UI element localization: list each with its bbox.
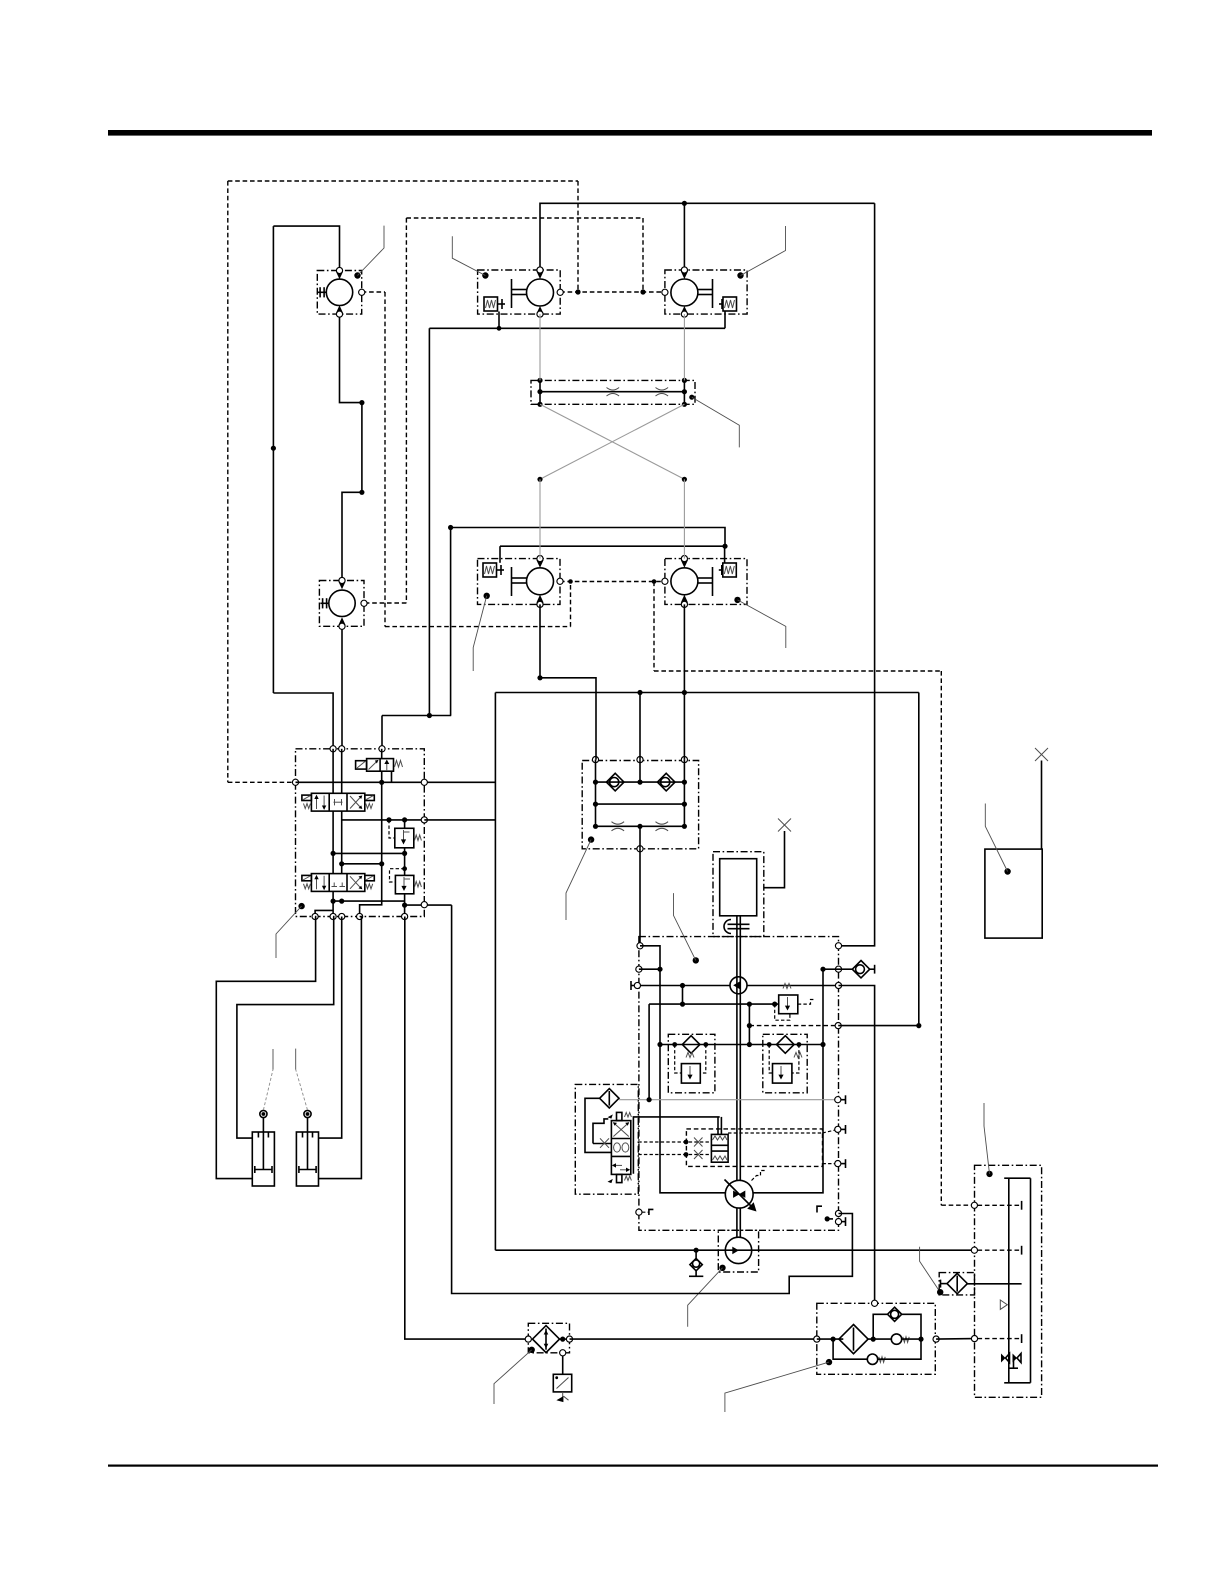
node: corner dot x450 y527 — [448, 525, 453, 530]
node: x660 junction — [657, 967, 662, 972]
callout: motor M_RR2 — [734, 597, 740, 603]
port: enclosure right check — [835, 966, 841, 972]
wire: y985 out to x874 drop to filter assy — [839, 986, 875, 1304]
node: end junction x918 — [916, 1023, 921, 1028]
divider enclosure — [582, 761, 698, 849]
callout: cylinder 2 leader — [296, 1070, 308, 1111]
tank strainer box — [939, 1273, 974, 1295]
variable displacement pump P1 — [725, 1171, 766, 1212]
port: filter right — [566, 1336, 572, 1342]
wire: filter to servo valve hook — [585, 1098, 611, 1152]
wire: dashed drop x941 to tank — [940, 671, 942, 1205]
wire: divider mid column top — [639, 760, 641, 783]
wire: filter internal rail — [560, 1338, 570, 1340]
wire: suction trunk to return filter assy — [570, 1338, 817, 1340]
node: suction tap x649 — [647, 1097, 652, 1102]
port: block top P2 — [339, 746, 345, 752]
wire: M1 feed from left — [273, 226, 339, 270]
wire: y1025 out to x918 — [838, 1025, 919, 1027]
servo control valve SV — [608, 1112, 632, 1183]
port: enclosure right upper (reel return) — [835, 943, 841, 949]
bottom right ports of enclosure — [817, 1206, 822, 1212]
wire: block R2 to x495 — [424, 819, 495, 821]
wire: x273 to valve block port — [273, 693, 333, 749]
port: tank left y1250 — [971, 1247, 977, 1253]
check valve CV-B — [657, 773, 675, 791]
wire: steer return to x451 — [405, 904, 452, 906]
callout: motor M_RR — [737, 272, 743, 278]
node: left tap — [831, 1337, 836, 1342]
charge supply line y1250 — [495, 1249, 974, 1251]
node: RV2 bottom junction — [402, 903, 407, 908]
node: dot on x273 — [271, 446, 276, 451]
wire: relief gallery y819 — [342, 819, 425, 821]
callout: main pump leader — [693, 957, 699, 963]
wire: servo rail y1004 — [649, 1003, 779, 1005]
port: tank left y1338 — [971, 1336, 977, 1342]
node: suction check tap — [694, 1248, 699, 1253]
wire: gray riser M_RR bottom to divider — [683, 314, 685, 380]
wire: dashed into tank y1338 — [978, 1338, 1022, 1340]
wire: front deck enclosure dashed left side — [405, 218, 407, 603]
node: right tap — [871, 1337, 876, 1342]
wire: brake stub row1 right — [724, 312, 726, 329]
node: taps on y1004 — [680, 1002, 685, 1007]
wire: dashed into tank y1205 — [978, 1204, 1022, 1206]
node: divider mid tap — [637, 690, 642, 695]
wire: motor RF2 return to divider — [540, 604, 596, 759]
wire: case drain return path — [452, 905, 853, 1293]
wire: drop to right reel motor top port — [683, 203, 685, 270]
node: merge — [918, 1337, 923, 1342]
port: block right R3 — [421, 902, 427, 908]
charge pump CP1 — [730, 977, 747, 994]
callout: tank — [986, 1171, 992, 1177]
wire: riser x495 — [494, 693, 496, 1251]
node: x341 y901 — [339, 899, 344, 904]
servo pilot hook with plug X — [593, 1143, 611, 1145]
wire: dashed case line y1025 — [749, 1025, 838, 1027]
oil level mark — [1000, 1300, 1007, 1309]
wire: dashed drop x385 — [384, 292, 386, 627]
wire: row2 brake stub left — [499, 546, 501, 563]
backlap solenoid valve — [356, 759, 403, 772]
gauge port bottom left — [636, 1209, 642, 1215]
wire: hydrostat loop right — [753, 1045, 823, 1193]
wire: link y853 — [333, 852, 405, 854]
wire: spool feed x341 — [341, 749, 343, 794]
servo assembly enclosure — [575, 1084, 638, 1194]
reservoir vent line with plug X — [1041, 761, 1043, 850]
port: enclosure right y985 — [835, 982, 841, 988]
wire: x381 to V2 bottom port — [360, 864, 382, 917]
wire: suction rail y1099 (gray) — [619, 1099, 838, 1101]
wire: gray drop to row2 middle motor — [539, 479, 541, 558]
bypass check lower — [833, 1339, 921, 1364]
wire: M2 bottom to valve block port — [341, 626, 343, 749]
wire: divider mid column to y692 — [639, 693, 641, 760]
wire: link down to stroking piston — [717, 1117, 719, 1135]
port: enclosure left lower — [636, 966, 642, 972]
port: tank left y1205 — [971, 1202, 977, 1208]
node: T junction reel supply at x684 — [682, 201, 687, 206]
callout: cylinder 1 leader — [263, 1070, 273, 1111]
wire: spool feed x333 — [332, 749, 334, 794]
port: block left — [292, 779, 298, 785]
wire: inlet jog — [640, 946, 660, 1045]
callout: tank strainer leader — [920, 1247, 941, 1292]
node: junction y546 — [722, 544, 727, 549]
wire: divider bottom to pump enclosure — [639, 849, 641, 946]
wire: piston dashed links right to ports — [728, 1132, 822, 1134]
node: junction on crossover at x578 — [575, 289, 580, 294]
wire: dashed run y626 — [385, 626, 571, 628]
wire: row2 brake stub right — [724, 546, 726, 563]
callout: suction filter — [529, 1347, 535, 1353]
callout: return filter assy — [826, 1359, 832, 1365]
wheel motor M2 (rear left) — [319, 577, 367, 629]
gerotor charge pump CP2 — [725, 1237, 751, 1263]
check valve CV-R (outside right) — [839, 961, 875, 978]
wire: x749 drop — [748, 1004, 750, 1044]
wire: motor RR2 return to divider — [683, 604, 685, 759]
wire: row2 brake header y527 — [451, 528, 725, 547]
wire: left deck enclosure dashed top — [228, 180, 578, 182]
cylinder CYL2 (right) — [296, 1110, 318, 1186]
wire: port stub x315 — [315, 910, 333, 916]
port: enclosure right y1129 — [835, 1126, 841, 1132]
node: loop rail taps — [657, 1042, 662, 1047]
wire: reel supply line M_RF top — [540, 203, 875, 270]
wire: right check port rail — [823, 968, 839, 970]
port: block bottom ports — [312, 913, 318, 919]
pump enclosure — [639, 937, 839, 1231]
node: junction at x643 on crossover — [640, 289, 645, 294]
steer spool valve V2 (4/3) — [302, 874, 374, 892]
engine block — [720, 859, 757, 916]
reel motor M_RF2 (row2 middle) with brake left — [478, 556, 564, 608]
strainer filter F4 — [941, 1273, 968, 1293]
port: assy left — [814, 1336, 820, 1342]
wire: hydrostat loop left — [660, 1045, 725, 1193]
callout: charge pump — [719, 1265, 725, 1271]
wire: gray drop to row2 right motor — [683, 479, 685, 558]
node: bypass tap — [560, 1337, 565, 1342]
node: brake stub junction — [497, 326, 502, 331]
wire: charge pressure rail y985 — [637, 985, 730, 987]
port: block top P3 — [379, 746, 385, 752]
callout: reel flow divider — [692, 397, 740, 447]
orifice pair right — [656, 822, 669, 825]
wire: tank link y901 — [333, 900, 405, 902]
wire: RV2 column — [404, 853, 406, 875]
plug X lower — [694, 1150, 703, 1159]
wire: divider left column — [595, 760, 597, 827]
expansion reservoir — [985, 849, 1042, 938]
relief valve RV2 — [390, 866, 422, 894]
wire: divider crossover diagonal B — [540, 404, 684, 479]
node: x333 y853 — [331, 851, 336, 856]
port: assy top (from x874) — [872, 1300, 878, 1306]
shaft coupling — [724, 920, 750, 934]
multi-function valve MFV2 — [763, 1034, 807, 1093]
suction filter F1 — [600, 1089, 619, 1108]
wire: pilot dashed to piston upper — [638, 1141, 711, 1143]
wire: servo supply heavy — [633, 1117, 719, 1174]
stroking piston dashed box — [686, 1129, 822, 1167]
wire: filter out — [868, 1338, 890, 1340]
stroking piston — [711, 1134, 728, 1162]
port: block top P1 — [330, 746, 336, 752]
return filter F3 — [839, 1325, 868, 1354]
filter F2 — [533, 1326, 560, 1353]
wire: dashed stub from motor M1 right port — [362, 291, 385, 293]
reel motor M_RR2 (row2 right) with brake right — [662, 556, 747, 608]
wire: gray riser M_RF bottom to divider — [539, 314, 541, 380]
node: x823 tap — [820, 967, 825, 972]
anti-cavitation check valve below — [689, 1250, 703, 1276]
wire: brake pilot header y328 — [429, 327, 725, 329]
wire: M1 bottom jog to M2 top — [340, 314, 362, 580]
reel motor M_RR (row1 right) with brake — [662, 267, 747, 317]
node: jog dot upper — [359, 400, 364, 405]
wire: left deck enclosure dashed bottom to valve block port — [228, 781, 293, 783]
wire: brake pilot run y715 — [382, 715, 451, 717]
multi-function valve MFV1 — [668, 1034, 715, 1093]
wire: divider mid rail y804 — [596, 803, 685, 805]
node: x333 y901 — [331, 899, 336, 904]
wire: dashed into tank y1250 — [978, 1249, 1022, 1251]
wire: brake stub row1 left — [498, 312, 500, 329]
wire: divider crossover diagonal A — [540, 404, 684, 479]
wire: front deck enclosure dashed right drop — [642, 218, 644, 292]
page top rule — [108, 130, 1152, 136]
wire: assy main rail — [817, 1338, 844, 1340]
wire: divider orifice rail y826 — [596, 825, 685, 827]
wire: main gallery y782 — [296, 781, 496, 783]
reel motor M_RF (row1 middle) with brake — [478, 267, 564, 317]
engine enclosure — [713, 852, 764, 937]
plug X upper — [694, 1138, 703, 1147]
callout: center flow divider — [588, 836, 594, 842]
port: enclosure left gauge y985 — [634, 982, 640, 988]
wire: y1004 drop to suction rail — [648, 1004, 650, 1100]
wire: divider check rail y782 — [596, 781, 685, 783]
check valve CV-A — [606, 773, 624, 791]
port: enclosure right y1099 — [835, 1097, 841, 1103]
node: RV2 top tap — [402, 851, 407, 856]
wire: brake pilot drop x429 — [428, 328, 430, 715]
node: crossover end right — [682, 477, 687, 482]
wire: dashed link to left rear wheel motor port — [364, 602, 406, 604]
wire: servo branch — [682, 986, 684, 1005]
wire: pilot dashed to piston lower — [638, 1154, 711, 1156]
reel flow divider (row1) — [531, 378, 695, 407]
wire: center supply y692 — [495, 692, 918, 694]
port: enclosure right y1025 — [835, 1023, 841, 1029]
wire: link y863 — [342, 863, 382, 865]
port: block right R2 — [421, 817, 427, 823]
wheel motor M1 (front left) — [317, 267, 365, 317]
wire: RV1 bottom — [404, 848, 406, 854]
node: cross junction y692 — [682, 690, 687, 695]
node: divider junctions — [593, 780, 598, 785]
node: x381 y863 — [379, 861, 384, 866]
node: junction x654 row2 crossover — [652, 579, 657, 584]
wire: left deck enclosure dashed right drop — [577, 181, 579, 292]
wire: feed through backlap valve — [381, 749, 383, 759]
orifice pair left — [612, 822, 625, 825]
wire: x918 drop — [918, 693, 920, 1026]
port: enclosure right y1163 — [835, 1161, 841, 1167]
wire: row2 reel motor crossover dashed — [560, 581, 665, 583]
wire: steer line port x359 to right cylinder bottom — [319, 917, 362, 1179]
port: divider bottom — [637, 846, 643, 852]
wire: lift line port x315 to left cylinder bottom — [216, 917, 315, 1179]
wire: divider mid column bottom — [639, 826, 641, 849]
lift spool valve V1 (4/3) — [302, 793, 374, 811]
page bottom rule — [108, 1465, 1158, 1467]
wire: strainer into tank — [967, 1283, 1021, 1285]
charge pump enclosure — [718, 1230, 758, 1272]
node: jog dot lower — [359, 490, 364, 495]
bypass check upper — [873, 1307, 921, 1339]
wire: x823 drop to loop — [822, 969, 824, 1044]
wire: x404 to filter — [405, 917, 528, 1340]
wire: dashed run y671 to x941 — [654, 670, 941, 672]
wire: dashed drop x654 to y671 — [653, 582, 655, 672]
wire: lift line port x333 to left cylinder top — [237, 917, 334, 1139]
node: crossover end left — [537, 477, 542, 482]
port: divider top left — [592, 757, 598, 763]
engine vent stub with plug X — [764, 831, 785, 888]
relief valve RV1 — [389, 820, 421, 848]
wire: x381 drop from gallery — [381, 782, 383, 864]
port: filter bottom — [560, 1350, 566, 1356]
node: x341 y863 — [339, 861, 344, 866]
node: T of brake drop on y715 — [427, 713, 432, 718]
node: RV1 tap y819 — [402, 817, 407, 822]
port: assy right — [933, 1336, 939, 1342]
check valve mid — [891, 1334, 921, 1344]
wire: assy out to tank — [936, 1338, 974, 1341]
port: divider top right — [681, 757, 687, 763]
wire: reel return long vertical x874 — [839, 203, 875, 946]
vacuum switch — [553, 1356, 571, 1402]
drive shaft double line — [736, 916, 738, 1181]
port: enclosure left upper (from divider) — [637, 943, 643, 949]
wire: dashed into tank port y1205 — [941, 1204, 974, 1206]
node: x749 dashed tap — [747, 1023, 752, 1028]
wire: row2 brake feed riser x450 — [450, 528, 452, 716]
wire: left deck enclosure dashed left side — [227, 181, 229, 782]
port: filter left — [525, 1336, 531, 1342]
wire: row1 reel motor crossover dashed — [560, 291, 665, 293]
tank internal standpipe — [1004, 1178, 1030, 1383]
drain valves — [1001, 1354, 1021, 1369]
port: divider top mid — [637, 757, 643, 763]
wire: loop rail y1044 — [660, 1044, 823, 1046]
charge relief valve CRV — [775, 984, 815, 1021]
cylinder CYL1 (left) — [252, 1110, 274, 1186]
callout: motor M_RF — [482, 272, 488, 278]
callout: valve block — [298, 903, 304, 909]
callout: motor M1 — [354, 272, 360, 278]
wire: long left vertical x273 — [272, 226, 274, 693]
wire: front deck enclosure dashed top — [406, 217, 643, 219]
wire: backlap valve tank stub — [391, 771, 393, 782]
node: junction x570.5 row2 crossover — [568, 579, 573, 584]
wire: divider right column — [683, 760, 685, 827]
wire: dashed riser x570 — [570, 582, 572, 627]
gauge stub left — [631, 985, 634, 987]
wire: left port into x660 — [639, 968, 660, 970]
node: gallery junction under backlap valve — [379, 780, 384, 785]
wire: row2 brake header y546 — [500, 545, 725, 547]
port: block right R1 — [421, 779, 427, 785]
callout: reservoir — [1004, 868, 1010, 874]
node: corner dot — [537, 675, 542, 680]
node: pilot tap y819 — [386, 817, 391, 822]
port stub y1099 — [841, 1099, 846, 1101]
valve block enclosure — [296, 749, 425, 917]
wire: RV1 top — [404, 820, 406, 828]
node: servo tap y985 — [680, 983, 685, 988]
wire: steer line port x341 to right cylinder top — [319, 917, 342, 1139]
callout: motor M_RF2 — [484, 593, 490, 599]
wire: y715 down to valve block port — [381, 716, 383, 749]
